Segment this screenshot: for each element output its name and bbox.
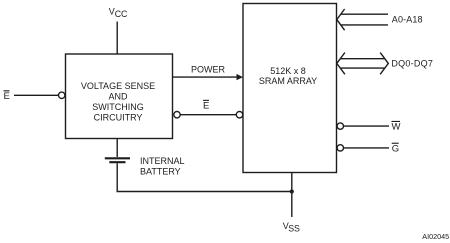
net label G-bar (output enable): [392, 143, 399, 155]
net label W-bar (write enable): [392, 121, 401, 133]
battery B1 negative plate: [109, 161, 125, 163]
svg-text:INTERNAL: INTERNAL: [140, 156, 185, 166]
svg-text:AI02045: AI02045: [422, 232, 449, 241]
svg-text:POWER: POWER: [191, 64, 226, 74]
svg-text:E: E: [203, 101, 209, 112]
bus A0-A18 address arrow (hollow, points into U2): [337, 9, 388, 30]
wire VCC to U1 top: [116, 22, 118, 55]
svg-text:CC: CC: [115, 9, 128, 19]
wire U2 bottom to VSS stub: [291, 173, 293, 218]
svg-text:E: E: [4, 91, 10, 102]
wire U1 bottom to battery: [116, 139, 118, 158]
inverter bubble on U1 E output pin: [174, 112, 180, 118]
label INTERNAL BATTERY: [140, 156, 185, 177]
power net VSS label: [283, 221, 300, 234]
block U1: voltage sense and switching circuitry: [66, 54, 173, 139]
arrowhead on POWER wire: [237, 74, 244, 80]
svg-text:SWITCHING: SWITCHING: [92, 102, 144, 112]
net label E-bar (internal, between blocks): [203, 100, 209, 112]
wire battery negative down and across to VSS junction: [117, 163, 292, 191]
inverter bubble on U1 E input pin: [59, 92, 65, 98]
svg-text:AND: AND: [108, 92, 128, 102]
net label E-bar (chip enable input): [4, 90, 10, 102]
inverter bubble on U2 G input pin: [337, 145, 343, 151]
battery B1 positive plate: [105, 157, 130, 159]
svg-text:A0-A18: A0-A18: [392, 15, 423, 25]
bus DQ0-DQ7 data arrow (hollow, bidirectional): [337, 53, 389, 75]
block U2: 512K x 8 SRAM array: [243, 4, 337, 173]
inverter bubble on U2 W input pin: [337, 123, 343, 129]
svg-text:SS: SS: [288, 224, 300, 234]
wire internal E-bar: [180, 114, 236, 116]
wire G-bar: [344, 147, 390, 149]
svg-text:SRAM ARRAY: SRAM ARRAY: [259, 76, 317, 86]
junction node dot: [290, 189, 294, 193]
svg-text:CIRCUITRY: CIRCUITRY: [94, 113, 143, 123]
svg-text:G: G: [392, 143, 399, 154]
svg-text:W: W: [392, 122, 401, 133]
svg-text:DQ0-DQ7: DQ0-DQ7: [391, 58, 433, 68]
wire E input: [14, 94, 58, 96]
wire POWER from U1 to U2: [173, 76, 238, 78]
svg-text:BATTERY: BATTERY: [140, 167, 181, 177]
power net VCC label: [109, 6, 128, 19]
wire W-bar: [344, 125, 390, 127]
svg-text:512K x 8: 512K x 8: [270, 66, 306, 76]
svg-text:VOLTAGE SENSE: VOLTAGE SENSE: [81, 81, 155, 91]
inverter bubble on U2 E input pin: [236, 112, 242, 118]
